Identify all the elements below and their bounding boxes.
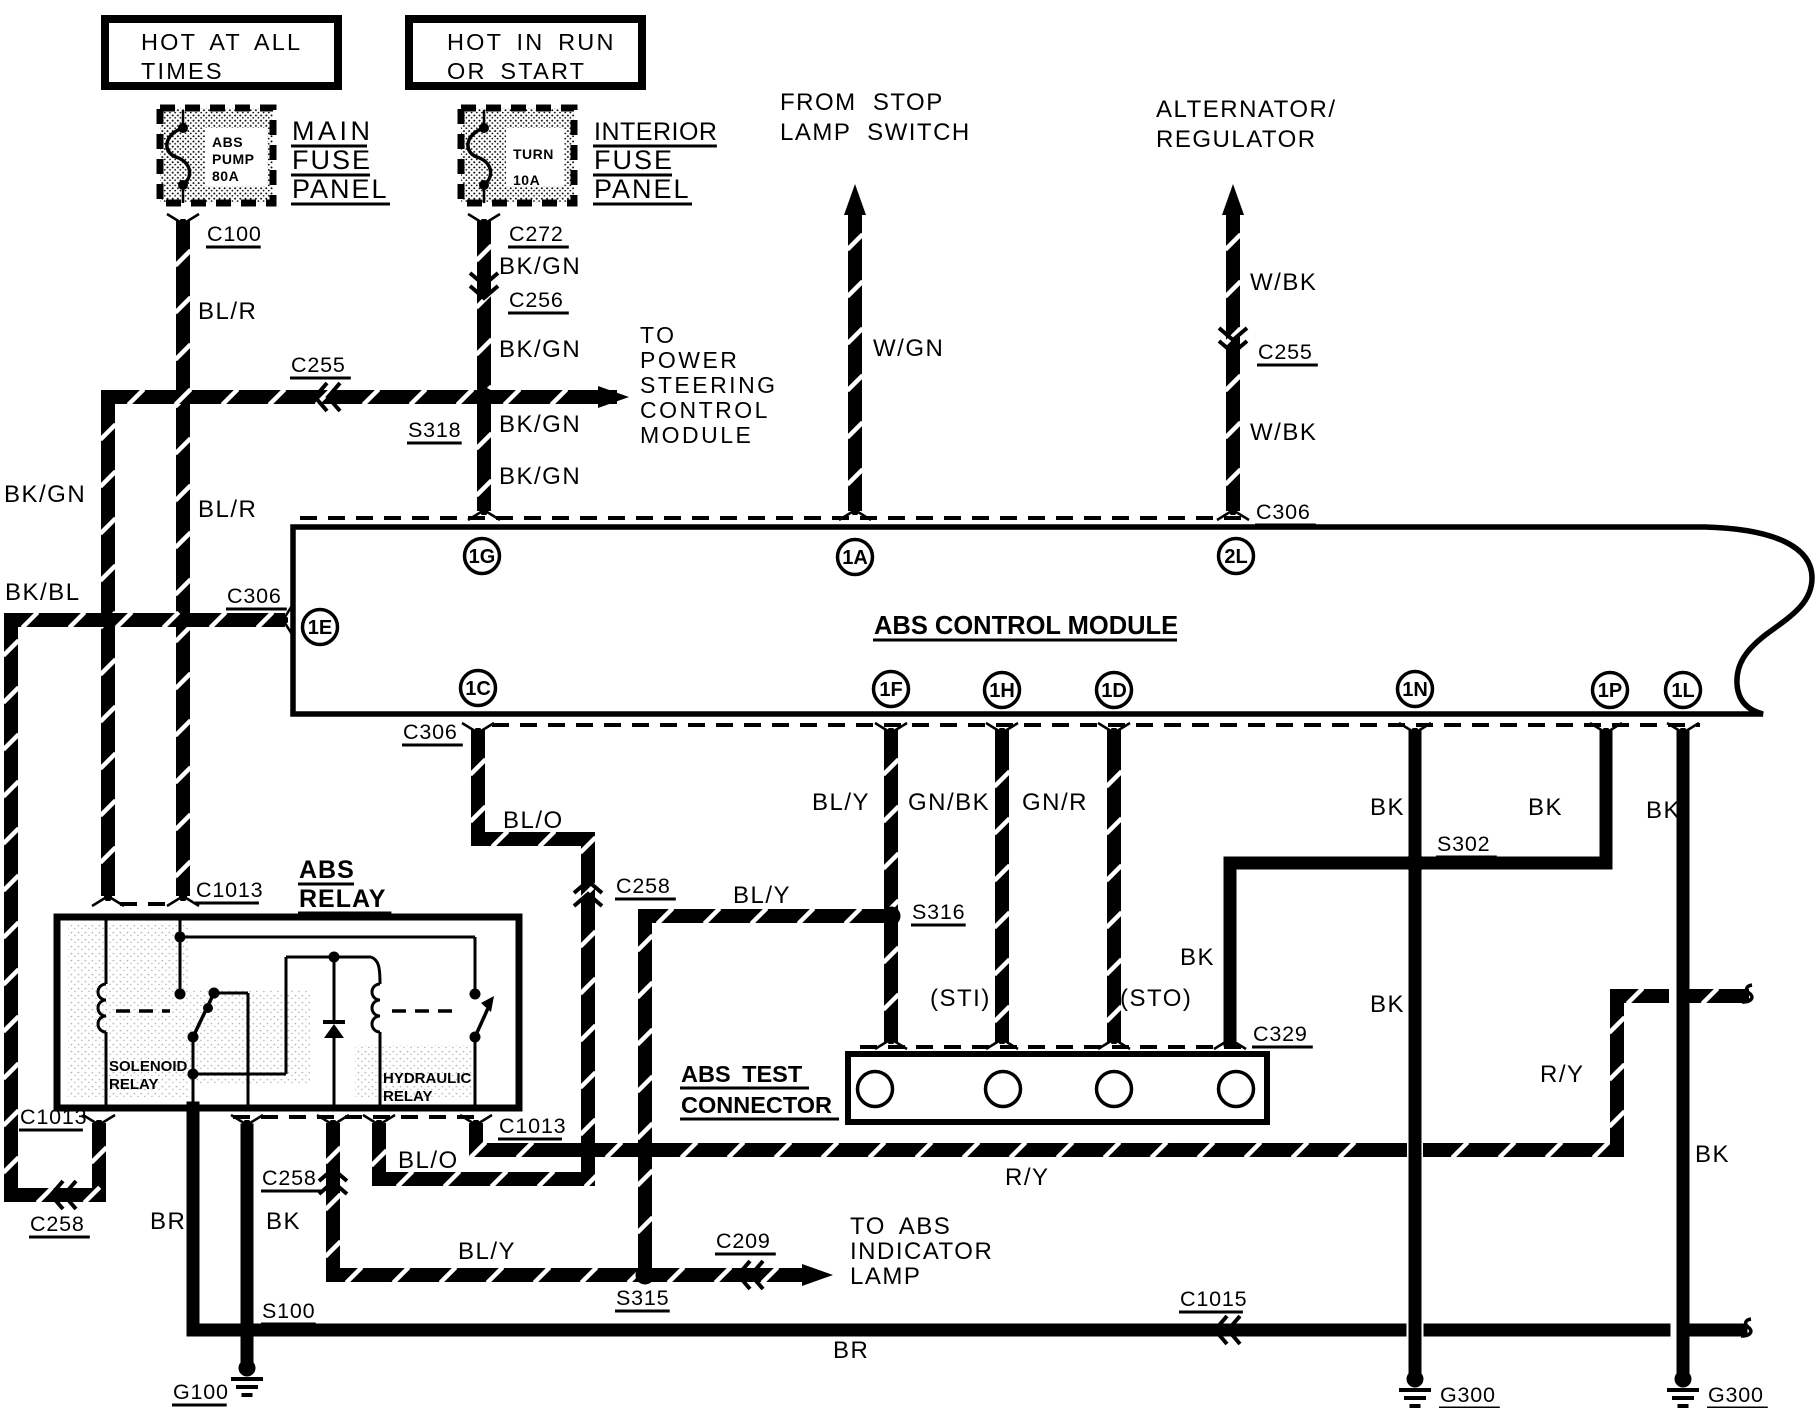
pin 1P funnel below module bbox=[1590, 723, 1622, 740]
module pin 2L bbox=[1219, 539, 1254, 574]
pin funnel BK/GN at relay C1013 bbox=[92, 889, 124, 906]
svg-text:HYDRAULIC: HYDRAULIC bbox=[383, 1070, 471, 1087]
svg-text:BK/GN: BK/GN bbox=[499, 463, 581, 490]
svg-text:MAIN: MAIN bbox=[292, 116, 374, 146]
wire BK/GN from C272 to module pin 1G bbox=[476, 228, 491, 504]
svg-text:BK: BK bbox=[266, 1208, 301, 1235]
svg-text:BK/GN: BK/GN bbox=[499, 336, 581, 363]
svg-text:CONTROL: CONTROL bbox=[640, 397, 770, 423]
svg-text:FROM STOP: FROM STOP bbox=[780, 89, 944, 116]
svg-text:ABS: ABS bbox=[299, 856, 355, 884]
svg-text:TURN: TURN bbox=[513, 146, 554, 162]
solenoid actuation dashed link bbox=[116, 1009, 170, 1013]
connector C306 at 1E bbox=[226, 584, 293, 636]
wire R/Y right segment bbox=[1430, 988, 1662, 1157]
svg-text:FUSE: FUSE bbox=[292, 145, 372, 175]
splice S316 bbox=[882, 900, 966, 926]
left relay pin funnel to C258 bbox=[83, 1115, 115, 1132]
svg-text:BL/R: BL/R bbox=[198, 298, 257, 325]
connector C1013 above relay dashed line bbox=[120, 902, 171, 906]
connector C255 left bbox=[290, 353, 351, 411]
label BK at G100 wire bbox=[266, 1208, 301, 1235]
wire BK/BL from left edge to module pin 1E bbox=[3, 612, 278, 1195]
wire W/BK from alternator to module pin 2L bbox=[1222, 184, 1244, 504]
svg-text:LAMP SWITCH: LAMP SWITCH bbox=[780, 119, 971, 146]
label BK on C329 wire bbox=[1180, 944, 1215, 971]
svg-text:1C: 1C bbox=[465, 678, 491, 700]
svg-text:W/BK: W/BK bbox=[1250, 419, 1317, 446]
wire GN/R from module pin 1D bbox=[1106, 737, 1121, 1035]
pin 1F funnel below module bbox=[875, 723, 907, 740]
connector C258 on BL/O bbox=[574, 874, 676, 906]
svg-text:C258: C258 bbox=[262, 1166, 317, 1190]
connector C256 bbox=[470, 273, 569, 313]
svg-text:RELAY: RELAY bbox=[383, 1088, 432, 1105]
svg-text:C256: C256 bbox=[509, 288, 564, 312]
label box HOT AT ALL TIMES bbox=[105, 19, 338, 86]
svg-text:OR START: OR START bbox=[447, 58, 586, 84]
ground G300 right bbox=[1667, 1371, 1768, 1409]
svg-text:REGULATOR: REGULATOR bbox=[1156, 126, 1317, 153]
module pin 1P bbox=[1593, 673, 1628, 708]
wire BL/Y from module pin 1F to test connector bbox=[883, 737, 898, 1035]
solenoid contact output wire bbox=[214, 993, 248, 1105]
svg-text:1G: 1G bbox=[469, 546, 496, 568]
svg-text:1L: 1L bbox=[1671, 680, 1694, 702]
svg-text:BL/O: BL/O bbox=[503, 807, 564, 834]
connector C1015 bbox=[1179, 1287, 1247, 1344]
wire R/Y middle segment bbox=[602, 1142, 631, 1157]
fuse ABS PUMP 80A in main fuse panel bbox=[160, 108, 273, 203]
svg-text:HOT AT ALL: HOT AT ALL bbox=[141, 29, 302, 55]
svg-text:GN/BK: GN/BK bbox=[908, 789, 990, 816]
label GN/BK bbox=[908, 789, 990, 816]
svg-text:C306: C306 bbox=[1256, 500, 1311, 524]
module pin 1C bbox=[461, 671, 496, 706]
svg-text:C1013: C1013 bbox=[499, 1114, 566, 1138]
label C306 top right bbox=[1255, 500, 1316, 525]
wire BL/Y from relay pin to S315 bbox=[325, 1130, 645, 1283]
svg-text:C1013: C1013 bbox=[20, 1105, 87, 1129]
label ABS CONTROL MODULE bbox=[873, 612, 1178, 640]
relay pin funnel BL/Y bbox=[317, 1115, 349, 1132]
fuse TURN 10A in interior fuse panel bbox=[461, 108, 574, 203]
wire R/Y end segment bbox=[1696, 988, 1742, 1003]
svg-text:C100: C100 bbox=[207, 222, 262, 246]
connector C272 bbox=[468, 214, 569, 247]
label BK 1P bbox=[1528, 794, 1563, 821]
label BL/O lower bbox=[398, 1147, 459, 1174]
label ABS TEST CONNECTOR bbox=[680, 1061, 839, 1119]
svg-text:BK: BK bbox=[1180, 944, 1215, 971]
module pin 1F bbox=[874, 672, 909, 707]
label INTERIOR FUSE PANEL bbox=[593, 118, 717, 204]
svg-text:BR: BR bbox=[833, 1337, 869, 1364]
svg-text:G300: G300 bbox=[1708, 1383, 1764, 1407]
wire from relay pin via C258 to left edge bbox=[11, 1130, 107, 1203]
label R/Y right bbox=[1540, 1061, 1585, 1088]
label BK 1L upper bbox=[1646, 797, 1681, 824]
svg-text:ABS TEST: ABS TEST bbox=[681, 1061, 803, 1087]
label BL/R upper bbox=[198, 298, 257, 325]
label FROM STOP LAMP SWITCH bbox=[780, 89, 971, 146]
module pin 1G bbox=[465, 539, 500, 574]
relay internal wire arm to diode bbox=[193, 957, 334, 1074]
solenoid switch feed wire bbox=[175, 920, 186, 1000]
svg-text:BK/GN: BK/GN bbox=[4, 481, 86, 508]
module pin 1L bbox=[1666, 673, 1701, 708]
ABS relay K1 box bbox=[57, 917, 519, 1108]
label MAIN FUSE PANEL bbox=[291, 116, 390, 204]
svg-text:BK: BK bbox=[1695, 1141, 1730, 1168]
svg-text:C255: C255 bbox=[1258, 340, 1313, 364]
connector C100 bbox=[167, 214, 262, 247]
label STI bbox=[930, 985, 991, 1012]
svg-text:S315: S315 bbox=[616, 1286, 669, 1310]
svg-text:10A: 10A bbox=[513, 172, 540, 188]
svg-text:1A: 1A bbox=[842, 547, 868, 569]
svg-text:BK/GN: BK/GN bbox=[499, 253, 581, 280]
svg-text:C258: C258 bbox=[616, 874, 671, 898]
wire BK from module pin 1L to ground G300 bbox=[1677, 737, 1690, 1368]
label C1013 bottom left bbox=[19, 1105, 87, 1130]
label BK 1N upper bbox=[1370, 794, 1405, 821]
label TO POWER STEERING CONTROL MODULE bbox=[640, 322, 778, 448]
svg-text:80A: 80A bbox=[212, 168, 239, 184]
svg-text:S318: S318 bbox=[408, 418, 461, 442]
pin 2L funnel bbox=[1217, 503, 1249, 520]
svg-text:TO ABS: TO ABS bbox=[850, 1213, 951, 1240]
svg-text:S302: S302 bbox=[1437, 832, 1490, 856]
relay pin funnel R/Y bbox=[460, 1115, 492, 1132]
svg-text:ABS: ABS bbox=[212, 134, 243, 150]
label box HOT IN RUN OR START bbox=[409, 19, 642, 86]
wire BR from relay down bbox=[187, 1108, 200, 1330]
relay internal wire to hydraulic contact bbox=[180, 937, 481, 1000]
wire BK/GN horizontal through S318 bbox=[108, 389, 610, 404]
svg-text:BK/GN: BK/GN bbox=[499, 411, 581, 438]
pin funnel test C329 bbox=[1214, 1032, 1246, 1049]
relay pin funnel BK bbox=[231, 1115, 263, 1132]
pin 1D funnel below module bbox=[1098, 723, 1130, 740]
label BL/Y at 1F bbox=[812, 789, 870, 816]
svg-text:BL/R: BL/R bbox=[198, 496, 257, 523]
wire BR bottom rail bbox=[193, 1324, 1741, 1337]
wire BK from test connector to S302 and 1P bbox=[1230, 737, 1606, 1040]
svg-text:BR: BR bbox=[150, 1208, 186, 1235]
label SOLENOID RELAY bbox=[109, 1058, 188, 1093]
svg-text:R/Y: R/Y bbox=[1005, 1164, 1050, 1191]
connector C255 right bbox=[1219, 328, 1318, 365]
connector C306 dashed line above module bbox=[300, 516, 1245, 520]
svg-text:BK: BK bbox=[1370, 794, 1405, 821]
module pin 1A bbox=[838, 540, 873, 575]
label BL/R lower bbox=[198, 496, 257, 523]
svg-text:POWER: POWER bbox=[640, 347, 739, 373]
splice S315 bbox=[615, 1266, 670, 1312]
svg-text:1D: 1D bbox=[1101, 680, 1127, 702]
splice S318 bbox=[407, 388, 494, 444]
label GN/R bbox=[1022, 789, 1088, 816]
solenoid relay switch arm bbox=[188, 988, 220, 1043]
svg-text:G300: G300 bbox=[1440, 1383, 1496, 1407]
svg-text:GN/R: GN/R bbox=[1022, 789, 1088, 816]
splice S100 label bbox=[261, 1299, 316, 1324]
label BK/GN below C256 bbox=[499, 336, 581, 363]
label BR bottom bbox=[833, 1337, 869, 1364]
svg-text:1N: 1N bbox=[1402, 679, 1428, 701]
connector C329 dashed line bbox=[860, 1045, 1245, 1049]
svg-text:PANEL: PANEL bbox=[292, 174, 389, 204]
label BK/GN left bbox=[4, 481, 86, 508]
splice S302 bbox=[1406, 832, 1497, 873]
label BK 1N lower bbox=[1370, 991, 1405, 1018]
label BK/BL bbox=[5, 579, 81, 606]
svg-text:ALTERNATOR/: ALTERNATOR/ bbox=[1156, 96, 1337, 123]
svg-text:2L: 2L bbox=[1224, 546, 1247, 568]
module pin 1H bbox=[985, 673, 1020, 708]
svg-text:BK/BL: BK/BL bbox=[5, 579, 81, 606]
module pin 1E bbox=[303, 610, 338, 645]
label C1013 bottom right bbox=[498, 1114, 566, 1139]
label W/GN bbox=[873, 335, 944, 362]
svg-text:BK: BK bbox=[1370, 991, 1405, 1018]
svg-text:RELAY: RELAY bbox=[299, 885, 386, 913]
pin 1N funnel below module bbox=[1399, 723, 1431, 740]
wire BK from module pin 1N to ground G300 bbox=[1409, 737, 1422, 1368]
pin 1L funnel below module bbox=[1667, 723, 1699, 740]
svg-text:STEERING: STEERING bbox=[640, 372, 778, 398]
svg-text:TO: TO bbox=[640, 322, 677, 348]
pin 1A funnel bbox=[839, 503, 871, 520]
label BL/Y above S316 wire bbox=[733, 882, 791, 909]
label ABS RELAY title bbox=[298, 856, 391, 913]
pin 1H funnel below module bbox=[986, 723, 1018, 740]
svg-text:(STO): (STO) bbox=[1120, 985, 1192, 1012]
svg-text:RELAY: RELAY bbox=[109, 1076, 158, 1093]
pin funnel test 1F bbox=[875, 1032, 907, 1049]
svg-text:BL/Y: BL/Y bbox=[458, 1238, 516, 1265]
hydraulic relay switch arm bbox=[470, 996, 495, 1105]
svg-text:C255: C255 bbox=[291, 353, 346, 377]
svg-text:1P: 1P bbox=[1598, 680, 1622, 702]
svg-text:C329: C329 bbox=[1253, 1022, 1308, 1046]
svg-text:PUMP: PUMP bbox=[212, 151, 254, 167]
svg-text:BL/Y: BL/Y bbox=[812, 789, 870, 816]
pin funnel BL/R at relay C1013 bbox=[167, 889, 199, 906]
svg-text:FUSE: FUSE bbox=[594, 145, 674, 175]
connector C1013 below relay dashed line bbox=[233, 1115, 476, 1119]
svg-text:SOLENOID: SOLENOID bbox=[109, 1058, 188, 1075]
svg-text:HOT IN RUN: HOT IN RUN bbox=[447, 29, 616, 55]
pin 1G funnel bbox=[468, 503, 500, 520]
test connector cavity 3 bbox=[1097, 1072, 1132, 1107]
label BK/GN below S318 bbox=[499, 411, 581, 438]
svg-text:C258: C258 bbox=[30, 1212, 85, 1236]
label C306 bottom left bbox=[402, 720, 463, 745]
svg-text:C306: C306 bbox=[403, 720, 458, 744]
label BL/Y bottom bbox=[458, 1238, 516, 1265]
wire R/Y end break bbox=[1742, 985, 1752, 1002]
arrow to power steering control module bbox=[598, 386, 629, 408]
svg-text:PANEL: PANEL bbox=[594, 174, 691, 204]
svg-text:1F: 1F bbox=[879, 679, 902, 701]
label HYDRAULIC RELAY bbox=[383, 1070, 471, 1105]
module pin 1D bbox=[1097, 673, 1132, 708]
label BK/GN above 1G bbox=[499, 463, 581, 490]
diode CR1 bbox=[323, 952, 345, 1106]
label BR left bbox=[150, 1208, 186, 1235]
connector C258 left bbox=[29, 1181, 90, 1237]
wire R/Y long segment bbox=[659, 1142, 1400, 1157]
label BL/O upper bbox=[503, 807, 564, 834]
label W/BK lower bbox=[1250, 419, 1317, 446]
connector C306 dashed line below module bbox=[492, 723, 1700, 727]
label C329 bbox=[1252, 1022, 1313, 1047]
label BK/GN below C272 bbox=[499, 253, 581, 280]
svg-text:S316: S316 bbox=[912, 900, 965, 924]
svg-text:1H: 1H bbox=[989, 680, 1015, 702]
svg-text:G100: G100 bbox=[173, 1380, 229, 1404]
svg-text:W/BK: W/BK bbox=[1250, 269, 1317, 296]
svg-text:CONNECTOR: CONNECTOR bbox=[681, 1092, 832, 1118]
wire BL/O from module pin 1C bbox=[371, 737, 600, 1187]
label W/BK upper bbox=[1250, 269, 1317, 296]
svg-text:C1015: C1015 bbox=[1180, 1287, 1247, 1311]
svg-text:S100: S100 bbox=[262, 1299, 315, 1323]
hydraulic actuation dashed link bbox=[392, 1009, 458, 1013]
svg-text:C306: C306 bbox=[227, 584, 282, 608]
svg-text:TIMES: TIMES bbox=[141, 58, 224, 84]
label C1013 top bbox=[195, 878, 263, 903]
svg-text:W/GN: W/GN bbox=[873, 335, 944, 362]
wire BK/GN left vertical to C1013 bbox=[100, 397, 115, 889]
wire BL/Y from S316 to S315 bbox=[637, 908, 891, 1275]
wire W/GN from stop lamp switch to module pin 1A bbox=[844, 184, 866, 504]
label ALTERNATOR/REGULATOR bbox=[1156, 96, 1337, 153]
connector C258 on BL/Y bbox=[261, 1166, 347, 1194]
svg-text:BL/O: BL/O bbox=[398, 1147, 459, 1174]
test connector cavity 1 bbox=[858, 1072, 893, 1107]
relay pin funnel BL/O bbox=[363, 1115, 395, 1132]
svg-text:1E: 1E bbox=[308, 617, 332, 639]
label R/Y bottom bbox=[1005, 1164, 1050, 1191]
wire BK from relay to ground G100 bbox=[241, 1130, 254, 1359]
svg-text:(STI): (STI) bbox=[930, 985, 991, 1012]
svg-text:ABS CONTROL MODULE: ABS CONTROL MODULE bbox=[874, 612, 1178, 640]
test connector cavity 4 bbox=[1219, 1072, 1254, 1107]
connector C209 bbox=[715, 1229, 776, 1289]
wire GN/BK from module pin 1H bbox=[994, 737, 1009, 1035]
svg-text:BK: BK bbox=[1528, 794, 1563, 821]
solenoid relay coil bbox=[98, 920, 106, 1105]
svg-text:INDICATOR: INDICATOR bbox=[850, 1238, 993, 1265]
svg-text:BK: BK bbox=[1646, 797, 1681, 824]
label STO bbox=[1120, 985, 1192, 1012]
ABS test connector box bbox=[848, 1054, 1267, 1122]
wire BR rail end break bbox=[1741, 1319, 1751, 1336]
svg-text:C272: C272 bbox=[509, 222, 564, 246]
relay stipple texture bbox=[68, 925, 475, 1100]
label TO ABS INDICATOR LAMP bbox=[850, 1213, 993, 1290]
svg-text:C209: C209 bbox=[716, 1229, 771, 1253]
pin 1C funnel below module bbox=[462, 723, 494, 740]
pin funnel test 1D bbox=[1098, 1032, 1130, 1049]
svg-text:C1013: C1013 bbox=[196, 878, 263, 902]
wire BL/R from C100 to ABS relay C1013 bbox=[175, 228, 190, 889]
wire BL/Y from S315 to C209 arrow bbox=[658, 1264, 833, 1286]
svg-text:R/Y: R/Y bbox=[1540, 1061, 1585, 1088]
module pin 1N bbox=[1398, 672, 1433, 707]
hydraulic relay coil bbox=[372, 984, 380, 1105]
wire R/Y from relay pin bbox=[470, 1130, 574, 1158]
svg-text:LAMP: LAMP bbox=[850, 1263, 921, 1290]
ABS control module U1 box bbox=[293, 527, 1812, 714]
svg-text:BL/Y: BL/Y bbox=[733, 882, 791, 909]
test connector cavity 2 bbox=[986, 1072, 1021, 1107]
pin funnel test 1H bbox=[986, 1032, 1018, 1049]
solenoid arm output wire bbox=[188, 1037, 199, 1105]
svg-text:INTERIOR: INTERIOR bbox=[594, 118, 717, 146]
relay internal wire diode to hydraulic coil bbox=[334, 957, 380, 984]
ground G300 left bbox=[1399, 1371, 1500, 1409]
ground G100 bbox=[172, 1360, 263, 1406]
svg-text:MODULE: MODULE bbox=[640, 422, 753, 448]
label BK 1L lower bbox=[1695, 1141, 1730, 1168]
